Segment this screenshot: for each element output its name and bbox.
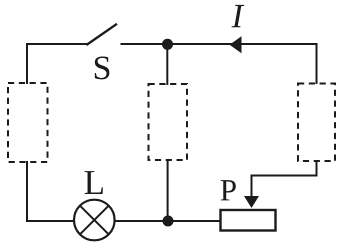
dashed component box left [8, 83, 48, 162]
wire right box to wiper [252, 160, 317, 198]
wire bottom-left vertical [26, 161, 28, 222]
node junction bottom [163, 216, 174, 227]
rheostat P body [221, 210, 276, 231]
label S [95, 56, 110, 79]
label P [221, 180, 236, 200]
node junction top [162, 39, 173, 50]
dashed component box right [298, 84, 335, 162]
label L [85, 171, 103, 194]
wire bottom horizontal lamp to rheostat [114, 220, 221, 222]
wire switch contact to top-right corner [121, 44, 317, 84]
lamp L cross diagonal 1 [80, 206, 109, 235]
lamp L cross diagonal 2 [80, 206, 109, 235]
lamp L circle [74, 200, 115, 241]
wire middle vertical lower [167, 159, 169, 221]
dashed component box middle [149, 84, 188, 160]
current arrow I head [230, 36, 242, 53]
wire bottom horizontal left of lamp [26, 220, 75, 222]
rheostat wiper arrow head [244, 196, 259, 208]
wire top-left vertical [26, 44, 28, 84]
switch S blade [86, 24, 117, 45]
label I [232, 5, 245, 27]
wire middle vertical upper [166, 44, 168, 85]
wire top-left horizontal to switch pivot [26, 43, 87, 45]
